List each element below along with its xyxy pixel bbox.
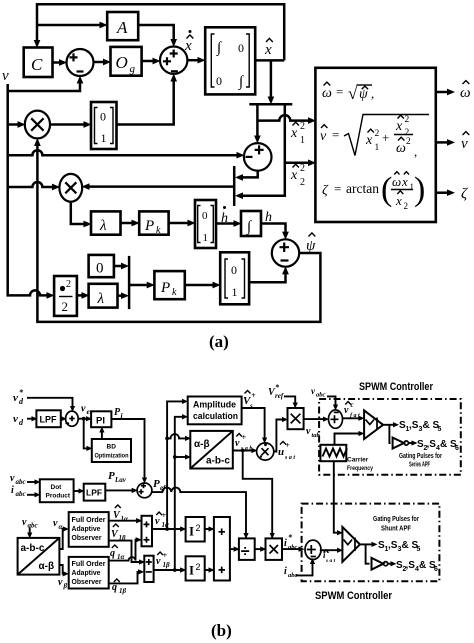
svg-text:2: 2 [300, 121, 305, 132]
label v*d [13, 388, 24, 406]
wire: v*d into summer Sb1 top [27, 398, 73, 406]
svg-text:(: ( [381, 171, 392, 208]
svg-text:0: 0 [238, 41, 244, 55]
svg-text:v: v [13, 413, 18, 425]
svg-text:C: C [31, 55, 43, 74]
svg-text:Series APF: Series APF [409, 462, 430, 469]
wire: carrier down to shunt comparator [334, 461, 337, 533]
wire: SB2 output into squarer2 [154, 569, 181, 571]
wire: NOT output to S246 [408, 442, 411, 444]
label vabc series input [311, 386, 326, 399]
svg-text:O: O [116, 53, 128, 72]
svg-text:I: I [189, 563, 194, 578]
wire: ve branch down into BD optimization [84, 419, 87, 449]
shunt summer [305, 540, 321, 559]
wire: shunt NOT output to S246 [388, 563, 391, 565]
svg-text:v: v [320, 129, 327, 144]
svg-text:0: 0 [100, 110, 106, 124]
label h [265, 210, 272, 225]
wire: vabc down into abc to alphabeta block [29, 528, 31, 533]
svg-text:,S: ,S [388, 540, 398, 551]
svg-text:Observer: Observer [72, 533, 102, 542]
svg-text:Product: Product [46, 493, 71, 500]
svg-text:abc: abc [316, 392, 326, 399]
wire: V1beta down into sum box SB2 with hop [109, 541, 139, 562]
dashed box shunt SPWM [302, 504, 440, 582]
svg-text:P: P [144, 218, 154, 234]
block Pk1 [139, 211, 168, 236]
label v1beta-hat-plus [156, 551, 170, 569]
svg-text:v: v [344, 405, 349, 416]
svg-text:,: , [414, 144, 417, 159]
wire: x1 drop from bar into summer S4 top [256, 104, 259, 135]
label omega-hat output [460, 81, 471, 101]
wire: zero block into mux bar MB1 [114, 265, 121, 268]
wire: series summer output into comparator [343, 417, 359, 419]
wire: divider output up into series multiplier box [274, 420, 282, 452]
label V1beta-hat [111, 524, 126, 542]
wire: v1beta bus up to amplitude calculation [173, 417, 182, 572]
block C [24, 48, 53, 78]
svg-text:c: c [351, 401, 354, 409]
svg-text:q: q [110, 548, 115, 559]
svg-text:÷: ÷ [241, 544, 250, 561]
wire: v1beta branch into alpha-beta transform [173, 455, 185, 459]
summer S1 [67, 49, 94, 76]
wire: LPF1 into summer Sb1 [60, 418, 62, 420]
wire: multiplier output into shunt summer [282, 548, 299, 550]
svg-text:x: x [395, 193, 402, 208]
svg-text:v: v [58, 577, 63, 588]
svg-text:1: 1 [203, 232, 209, 244]
svg-text:ω: ω [396, 141, 406, 156]
svg-text:Full Order: Full Order [72, 559, 106, 568]
wire: B3 output up into S3 bottom [249, 274, 285, 282]
summer S3 [272, 239, 299, 266]
svg-text:2: 2 [196, 523, 201, 533]
series summer [329, 410, 343, 428]
wire: divider box into multiplier box [255, 548, 261, 550]
wire: comparator output down into NOT gate [389, 425, 390, 443]
NOT gate shunt [372, 558, 388, 570]
block amplitude calculation [188, 397, 242, 425]
svg-text:,: , [371, 86, 374, 101]
svg-text:Gating Pulses for: Gating Pulses for [373, 516, 419, 523]
svg-text:1: 1 [375, 143, 380, 153]
wire: shunt comparator down into NOT gate [366, 544, 370, 563]
svg-text:v: v [156, 556, 161, 567]
svg-text:A: A [116, 18, 128, 37]
label S2,S4 and S6 series [417, 439, 459, 452]
wire: vd into LPF1 [27, 418, 32, 420]
svg-text:Dot: Dot [51, 484, 63, 491]
wire: S1 output into Og [94, 61, 104, 64]
block LPF1 [36, 410, 60, 427]
svg-text:1β: 1β [163, 561, 171, 569]
svg-text:ω: ω [460, 85, 471, 101]
svg-text:x: x [365, 133, 373, 148]
multiplier M2 [59, 174, 82, 202]
wire: B1 output up into S2 bottom [117, 82, 174, 125]
svg-text:α-β: α-β [194, 439, 210, 450]
block lambda2 [89, 284, 118, 308]
wire: v1alpha bus up to amplitude calculation [165, 401, 182, 530]
svg-text:i: i [284, 566, 287, 577]
svg-text:x: x [184, 38, 192, 54]
wire: BD optimization up into PI bottom [101, 433, 103, 440]
svg-text:β: β [63, 582, 68, 590]
wire: equation output v [436, 141, 447, 144]
wire: MB2 output left into multiplier M2 right side [90, 185, 235, 188]
label PLav [108, 470, 127, 484]
svg-text:0: 0 [216, 74, 222, 88]
svg-text:LPF: LPF [40, 415, 58, 425]
wire: amplitude output right and down into divider circle top [242, 408, 265, 438]
label q1beta-hat [112, 579, 127, 595]
wire: S4 output down-left into mux bar MB2 [243, 171, 258, 178]
svg-text:ω: ω [322, 86, 332, 101]
svg-text:ψ: ψ [306, 238, 316, 254]
label vbeta [58, 577, 68, 590]
mux bar MB2 [233, 166, 236, 206]
wire: q1alpha up into sum box SB1 with hop over V1beta drop [109, 540, 136, 561]
integrator matrix block [205, 27, 255, 94]
svg-text:λ: λ [97, 291, 105, 307]
label vd [13, 413, 24, 427]
label Pef [153, 478, 166, 492]
label x1 squared [290, 121, 305, 146]
sum box SB2 [144, 556, 153, 582]
wire: dot product into LPF2 [74, 490, 79, 492]
block BD optimization [92, 439, 131, 462]
svg-text:s a t: s a t [284, 455, 295, 461]
wire: squarer output into lambda2 [77, 294, 82, 297]
svg-text:5: 5 [417, 546, 421, 553]
wire: equation output omega [436, 91, 447, 94]
svg-text:a-b-c: a-b-c [206, 456, 230, 467]
svg-text:): ) [414, 171, 425, 208]
wire: V*ref down into series multiplier box top [284, 396, 295, 402]
label vsab+ [235, 433, 252, 452]
svg-text:0: 0 [202, 210, 208, 222]
block dot product [40, 479, 74, 502]
svg-text:2: 2 [406, 137, 411, 147]
equation 2: v = sqrt(x1^2 + x2^2/omega^2) [320, 115, 429, 160]
wire: x2 branch down into mux bar MB2 [243, 163, 285, 196]
svg-text:PI: PI [96, 416, 105, 427]
label isat-c [323, 548, 336, 564]
block squarer-over-2 [54, 276, 77, 316]
label vabc into abc transform [22, 517, 38, 530]
shunt multiplier box [266, 538, 283, 560]
wire: S2 output into integrator [187, 59, 197, 62]
divider box [239, 538, 255, 560]
wire: Pk2 into matrix B3 [185, 284, 213, 287]
wire: squarer2 into adder box [205, 569, 209, 571]
label usat+ [278, 441, 295, 461]
svg-text:2: 2 [405, 115, 410, 125]
label Vs+ [243, 391, 256, 411]
equation 3: zeta = arctan(omega x1 / x2) [322, 171, 425, 211]
svg-text:g: g [130, 63, 136, 75]
wire: carrier up into comparator lower input [335, 434, 359, 445]
svg-text:Gating Pulses for: Gating Pulses for [399, 453, 442, 460]
block squarer2 [186, 556, 205, 580]
wire: LPF2 into summer Sb2 [105, 489, 132, 491]
comparator series [364, 410, 383, 439]
summer S4 [244, 143, 272, 171]
svg-text:,S: ,S [406, 560, 416, 571]
svg-text:Shunt APF: Shunt APF [381, 526, 412, 533]
svg-text:λ: λ [99, 218, 107, 234]
block Pk2 [154, 271, 184, 299]
block squarer1 [186, 517, 205, 542]
svg-text:k: k [172, 287, 177, 298]
dashed box series SPWM [319, 399, 461, 475]
wire: lambda2 into mux bar MB1 [118, 294, 122, 297]
label q1alpha-hat [110, 545, 125, 561]
svg-text:I: I [189, 524, 194, 539]
label ve [81, 404, 91, 417]
svg-text:P: P [153, 478, 160, 490]
wire: top feedback line from xhat node down into C [37, 4, 284, 60]
svg-text:ω: ω [392, 174, 401, 189]
wire: xhat down into demux bar [270, 60, 273, 96]
mux bar MB1 [128, 256, 131, 309]
svg-text:v: v [235, 438, 240, 449]
wire: v branch to multiplier M2 with hop over psi feedback [8, 182, 52, 187]
svg-text:+: + [251, 391, 256, 400]
wire: branch from feedback into A [37, 24, 100, 27]
summer Sb1 [66, 411, 79, 426]
label vtab [306, 426, 321, 439]
sum box SB1 [142, 516, 153, 547]
svg-text:1: 1 [410, 182, 415, 192]
NOT gate series [393, 438, 409, 449]
wire: equation output zeta [436, 191, 447, 194]
label S2,S4 and S6 shunt [396, 560, 438, 573]
svg-text:(a): (a) [209, 332, 229, 351]
svg-text:Optimization: Optimization [95, 453, 129, 460]
svg-text:arctan: arctan [346, 181, 379, 196]
wire: Ih output into summer S3 top [261, 224, 286, 232]
svg-text:ref: ref [275, 392, 284, 400]
svg-text:1α: 1α [121, 515, 129, 523]
svg-text:2: 2 [375, 129, 380, 139]
wire: vabc down into series summer top [327, 396, 336, 404]
svg-text:BD: BD [107, 444, 117, 451]
svg-text:v: v [461, 136, 468, 152]
wire: psi feedback from S3 right, down, along bottom, up into M1 bottom with hop [37, 146, 320, 322]
svg-text:SPWM Controller: SPWM Controller [315, 590, 393, 602]
label vabc (dot product input) [10, 473, 26, 486]
wire: M1 output into matrix B1 [50, 123, 84, 126]
label SPWM controller bottom [315, 590, 393, 602]
svg-text:v: v [81, 404, 86, 415]
svg-text:v: v [155, 516, 160, 527]
block LPF2 [84, 484, 106, 501]
block A [107, 12, 138, 40]
svg-text:SPWM Controller: SPWM Controller [359, 381, 434, 393]
svg-text:Adaptive: Adaptive [72, 524, 101, 533]
wire: MB1 output into Pk2 [129, 284, 147, 287]
wire: Sb2 output right with hops then down into divider top [152, 488, 246, 533]
caption (b) [211, 621, 232, 640]
wire: iabc into dot product [27, 494, 35, 496]
svg-text:c: c [327, 548, 330, 555]
svg-text:1: 1 [300, 135, 305, 146]
matrix block B1 [0;1] [91, 102, 117, 149]
multiplier M1 [25, 111, 50, 139]
label i*abc [284, 533, 298, 551]
svg-text:1β: 1β [119, 587, 127, 595]
svg-text:v: v [13, 392, 18, 404]
svg-text:1: 1 [232, 285, 238, 299]
adder box [214, 517, 230, 581]
svg-text:2: 2 [62, 299, 69, 314]
wire: A output down into summer S2 top [138, 25, 174, 39]
label xhat [264, 38, 273, 58]
label gating pulses series [399, 453, 442, 469]
demux bar [249, 103, 292, 106]
wire: v branch to summer S4 (y=155) [8, 150, 237, 155]
summer Sb2 [137, 483, 152, 498]
svg-text:P: P [108, 470, 115, 482]
svg-text:Full Order: Full Order [72, 515, 106, 524]
label gating pulses shunt [373, 516, 419, 533]
svg-text:α-β: α-β [39, 561, 55, 572]
svg-text:LPF: LPF [86, 488, 102, 498]
svg-text:1: 1 [101, 131, 107, 145]
svg-text:v: v [2, 68, 9, 84]
svg-text:=: = [334, 181, 341, 196]
svg-text:2: 2 [404, 201, 409, 211]
comparator shunt [342, 527, 360, 562]
svg-text:2: 2 [300, 163, 305, 174]
svg-text:,S: ,S [427, 439, 437, 450]
svg-text:+: + [163, 551, 168, 560]
equation block [315, 68, 435, 222]
svg-text:Observer: Observer [72, 577, 102, 586]
wire: integrator output to feedback node [255, 59, 284, 62]
wire: q1beta up into sum box SB2 [109, 572, 139, 584]
block full order adaptive observer 1 [69, 512, 109, 547]
label psi-hat [306, 233, 316, 254]
summer S2 [160, 47, 187, 74]
label zeta output [461, 186, 468, 202]
svg-text:abc: abc [16, 490, 26, 498]
svg-text:ψ: ψ [359, 87, 368, 102]
svg-text:1α: 1α [162, 521, 170, 529]
wire: B2 output into integrator Ih [216, 222, 234, 225]
divider circle [257, 443, 274, 460]
svg-text:(b): (b) [211, 621, 232, 640]
wire: squarer1 into adder box [205, 528, 209, 530]
svg-text:x: x [395, 119, 403, 134]
label iabc feedback [284, 566, 298, 579]
svg-text:s a t: s a t [325, 558, 336, 564]
label carrier frequency [347, 457, 373, 473]
wire: Pk1 to matrix B2 [169, 222, 188, 225]
svg-text:=: = [336, 84, 343, 99]
svg-text:ζ: ζ [461, 186, 468, 202]
matrix block B3 [0;1] [220, 252, 249, 304]
svg-text:Adaptive: Adaptive [72, 568, 101, 577]
svg-text:0: 0 [96, 261, 104, 277]
svg-text:=: = [332, 127, 339, 142]
wire: vsab output into divider circle with node [233, 449, 252, 453]
caption (a) [209, 332, 229, 351]
svg-text:x: x [290, 126, 298, 141]
label V1alpha-hat [113, 505, 128, 523]
block Og [111, 47, 142, 76]
label SPWM controller top [359, 381, 434, 393]
svg-text:+: + [242, 433, 247, 442]
wire: comparator output to S135 [383, 424, 393, 426]
svg-text:calculation: calculation [193, 411, 238, 421]
svg-text:2: 2 [66, 279, 71, 290]
svg-text:2: 2 [300, 177, 305, 188]
svg-text:P: P [160, 280, 170, 296]
wire: M2 output down and right into lambda1 [71, 202, 84, 224]
label valpha [53, 518, 63, 531]
block lambda1 [91, 211, 121, 234]
wire: v branch into multiplier M1 [8, 123, 18, 126]
label v1alpha-hat-plus [155, 511, 169, 529]
svg-text:0: 0 [231, 263, 237, 277]
svg-text:2: 2 [196, 562, 201, 572]
svg-text:+: + [162, 511, 167, 520]
wire: shunt summer output into comparator [320, 549, 337, 551]
wire: iabc up into shunt summer bottom [296, 564, 313, 575]
block full order adaptive observer 2 [69, 557, 109, 589]
wire: adder output into divider box [230, 548, 234, 550]
svg-text:v: v [306, 426, 311, 437]
label x2 squared [290, 163, 305, 188]
wire: Og output into summer S2 [142, 60, 153, 63]
label Pi [114, 407, 124, 420]
wire: vbeta from transform into observer2 [59, 565, 63, 574]
label iabc (dot product input) [11, 485, 26, 498]
wire: lambda1 to Pk1 [121, 222, 132, 225]
svg-text:Lav: Lav [114, 476, 127, 484]
wire: x1 squared branch to equation block with hop [257, 115, 308, 121]
wire: vabc into dot product [27, 481, 35, 483]
svg-text:+: + [382, 130, 389, 145]
wire: v1alpha branch into alpha-beta transform with hop [165, 434, 185, 440]
label S1,S3 and S5 shunt [378, 540, 421, 553]
svg-text:5: 5 [438, 426, 442, 433]
svg-text:Frequency: Frequency [347, 465, 373, 472]
wire: C output into summer S1 [53, 61, 60, 64]
svg-text:x: x [290, 168, 298, 183]
label xhat-dot [184, 30, 193, 54]
svg-text:u: u [278, 446, 284, 458]
wire: x2 drop from bar to equation block [285, 104, 308, 163]
svg-text:abc: abc [16, 478, 26, 486]
wire: v branch up into S1 bottom [8, 84, 80, 92]
equation 1: omega = sqrt(psi) [322, 82, 374, 103]
block abc to alpha-beta [18, 538, 60, 575]
svg-text:Carrier: Carrier [347, 457, 369, 464]
svg-text:a-b-c: a-b-c [21, 543, 45, 554]
svg-text:x: x [264, 42, 272, 58]
svg-text:6: 6 [455, 445, 459, 452]
block zero constant [89, 255, 114, 277]
label S1,S3 and S5 series [399, 420, 442, 433]
svg-text:,S: ,S [409, 420, 419, 431]
block integrator Ih [241, 211, 261, 236]
